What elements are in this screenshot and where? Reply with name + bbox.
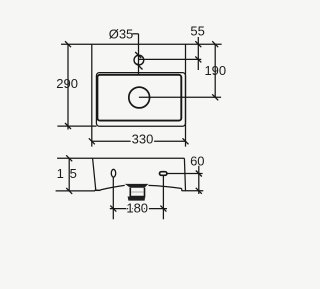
extension line 55 left xyxy=(197,37,199,70)
tap hole leader vertical xyxy=(138,34,140,74)
tick 180 right xyxy=(160,206,166,212)
overflow oval (elevation) xyxy=(111,169,115,177)
svg-text:180: 180 xyxy=(126,201,148,216)
extension line left (basin left edge, top view) xyxy=(91,44,93,146)
elevation top line xyxy=(57,157,184,159)
svg-text:1: 1 xyxy=(57,166,64,181)
svg-text:190: 190 xyxy=(204,63,226,78)
elevation left edge slanted xyxy=(93,158,96,190)
svg-text:55: 55 xyxy=(190,23,204,38)
tick 190 bottom xyxy=(212,94,218,100)
elevation right foot and 60 lower reference xyxy=(182,190,204,192)
tick 180 left xyxy=(110,206,116,212)
extension line right (basin right edge, top view) xyxy=(185,44,187,146)
elevation right edge xyxy=(184,158,185,190)
svg-text:5: 5 xyxy=(70,166,77,181)
elevation right foot step xyxy=(181,189,183,191)
drain circle xyxy=(129,87,150,108)
top reference line xyxy=(61,43,222,45)
svg-text:60: 60 xyxy=(190,153,204,168)
basin inner rim thick (top view) xyxy=(97,75,181,121)
fixing pill (elevation, dark) xyxy=(160,172,167,176)
extension line elevation bottom left xyxy=(56,190,95,192)
tick 55 right on top line xyxy=(212,41,218,47)
tick at tap line end xyxy=(195,56,201,62)
60 upper reference line xyxy=(167,173,203,175)
tap hole leader horizontal xyxy=(132,33,138,35)
tick 330 right xyxy=(183,138,189,144)
basin outer rim (top view) xyxy=(96,73,185,127)
waste nut (dark) xyxy=(128,197,146,201)
dimension line 180 xyxy=(110,208,167,210)
dimension line 115 vertical xyxy=(68,158,70,191)
tap hole circle xyxy=(134,55,144,65)
tick 330 left xyxy=(89,138,95,144)
extension line basin bottom to left xyxy=(57,125,96,127)
svg-text:290: 290 xyxy=(56,76,78,91)
dimension line 60 vertical xyxy=(198,166,200,194)
elevation left foot xyxy=(95,189,101,191)
tick tap circle bottom xyxy=(137,64,143,70)
elevation underside curve left xyxy=(101,185,125,190)
dimension line 290 vertical xyxy=(67,44,69,129)
svg-text:Ø35: Ø35 xyxy=(109,27,134,42)
waste flange (dark) xyxy=(125,184,149,188)
tick tap circle top xyxy=(135,52,141,58)
tick 60 top xyxy=(196,171,202,177)
dimension line 190 vertical xyxy=(214,44,216,97)
waste body xyxy=(130,188,144,197)
tick 115 top xyxy=(66,155,72,161)
dimension line 330 xyxy=(92,140,186,142)
tap centre line to right xyxy=(139,58,201,60)
waste body shading xyxy=(131,191,143,193)
extension line 180 right xyxy=(162,175,164,219)
tick 55 left on top line xyxy=(195,41,201,47)
elevation underside curve right xyxy=(148,185,181,188)
drain centre line to right xyxy=(139,96,221,98)
tick 290 bottom xyxy=(65,123,71,129)
svg-text:330: 330 xyxy=(132,132,154,147)
tick 115 bottom xyxy=(66,188,72,194)
tick 60 bottom xyxy=(196,188,202,194)
extension line 180 left xyxy=(112,177,114,219)
tick 290 top xyxy=(65,41,71,47)
